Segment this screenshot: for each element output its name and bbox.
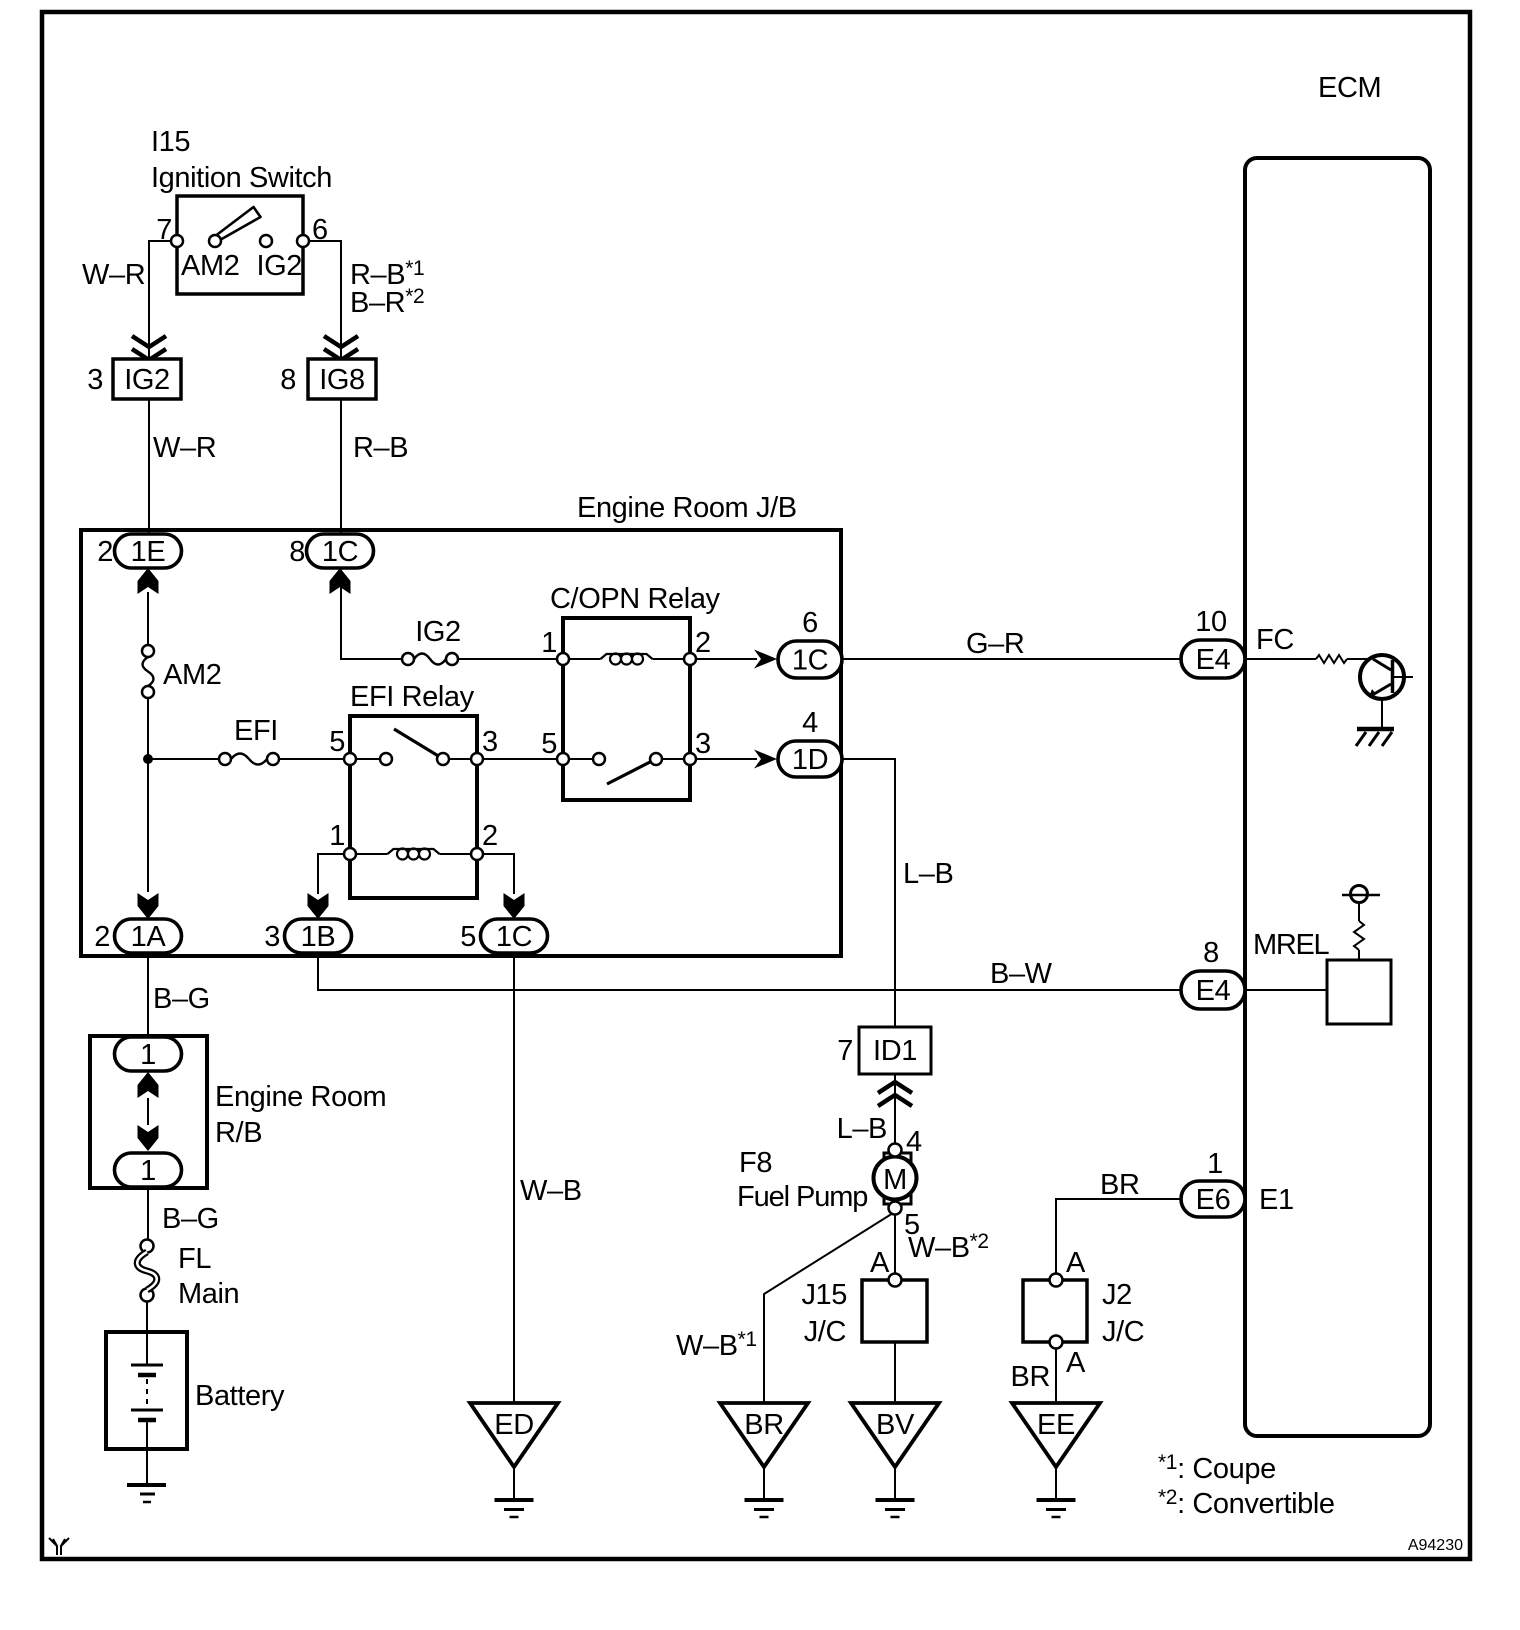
svg-text:BR: BR (744, 1409, 784, 1441)
svg-text:Engine Room: Engine Room (215, 1081, 386, 1113)
svg-text:EFI: EFI (234, 715, 278, 747)
svg-text:C/OPN Relay: C/OPN Relay (550, 583, 721, 615)
svg-text:10: 10 (1195, 606, 1226, 638)
svg-text:EFI Relay: EFI Relay (350, 681, 475, 713)
svg-text:*2: Convertible: *2: Convertible (1158, 1486, 1335, 1520)
svg-text:1C: 1C (322, 536, 358, 568)
svg-text:AM2: AM2 (163, 659, 221, 691)
svg-text:J15: J15 (801, 1279, 847, 1311)
svg-text:MREL: MREL (1253, 929, 1330, 961)
svg-text:1: 1 (541, 627, 557, 659)
svg-text:1: 1 (329, 820, 345, 852)
svg-text:2: 2 (695, 627, 711, 659)
svg-text:A: A (870, 1247, 890, 1279)
svg-text:7: 7 (156, 214, 172, 246)
svg-text:B–G: B–G (153, 983, 210, 1015)
svg-text:Battery: Battery (195, 1380, 285, 1412)
svg-text:2: 2 (97, 536, 113, 568)
svg-text:1C: 1C (792, 645, 828, 677)
svg-text:E6: E6 (1196, 1184, 1231, 1216)
svg-text:8: 8 (1203, 937, 1219, 969)
svg-text:4: 4 (802, 707, 818, 739)
svg-text:1B: 1B (301, 921, 336, 953)
svg-text:EE: EE (1037, 1409, 1075, 1441)
svg-text:3: 3 (695, 728, 711, 760)
svg-text:R–B: R–B (353, 432, 408, 464)
svg-text:1A: 1A (131, 921, 167, 953)
svg-text:Engine Room J/B: Engine Room J/B (577, 492, 797, 524)
svg-text:A94230: A94230 (1408, 1537, 1463, 1554)
svg-text:A: A (1066, 1347, 1086, 1379)
svg-text:F8: F8 (739, 1147, 772, 1179)
svg-text:ED: ED (494, 1409, 534, 1441)
svg-text:FC: FC (1256, 624, 1294, 656)
svg-text:J/C: J/C (804, 1316, 846, 1348)
svg-text:IG2: IG2 (256, 250, 302, 282)
svg-text:BV: BV (876, 1409, 915, 1441)
svg-text:8: 8 (280, 364, 296, 396)
svg-text:L–B: L–B (903, 858, 953, 890)
svg-text:6: 6 (802, 607, 818, 639)
svg-text:2: 2 (482, 820, 498, 852)
svg-text:1E: 1E (131, 536, 166, 568)
svg-text:I15: I15 (151, 126, 190, 158)
svg-text:3: 3 (482, 726, 498, 758)
svg-text:5: 5 (460, 921, 476, 953)
svg-text:5: 5 (329, 726, 345, 758)
svg-text:1: 1 (140, 1155, 156, 1187)
svg-text:ID1: ID1 (873, 1035, 917, 1067)
svg-text:Fuel Pump: Fuel Pump (737, 1181, 867, 1213)
svg-text:5: 5 (541, 728, 557, 760)
svg-text:ECM: ECM (1318, 72, 1381, 104)
svg-text:B–W: B–W (990, 958, 1053, 990)
svg-text:1: 1 (1207, 1148, 1223, 1180)
svg-text:IG2: IG2 (415, 616, 461, 648)
svg-text:L–B: L–B (837, 1113, 887, 1145)
svg-text:1D: 1D (792, 744, 828, 776)
svg-text:W–B: W–B (520, 1175, 582, 1207)
svg-text:B–G: B–G (162, 1203, 219, 1235)
svg-text:IG2: IG2 (124, 364, 170, 396)
svg-text:A: A (1066, 1247, 1086, 1279)
svg-text:J2: J2 (1102, 1279, 1132, 1311)
svg-text:3: 3 (87, 364, 103, 396)
svg-text:FL: FL (178, 1243, 211, 1275)
svg-text:BR: BR (1100, 1169, 1140, 1201)
svg-text:M: M (883, 1164, 907, 1196)
svg-text:3: 3 (264, 921, 280, 953)
svg-text:E4: E4 (1196, 644, 1231, 676)
svg-text:Main: Main (178, 1278, 239, 1310)
svg-text:R/B: R/B (215, 1117, 262, 1149)
svg-text:G–R: G–R (966, 628, 1024, 660)
svg-text:7: 7 (837, 1035, 853, 1067)
svg-text:6: 6 (312, 214, 328, 246)
svg-text:BR: BR (1011, 1361, 1051, 1393)
svg-text:1: 1 (140, 1039, 156, 1071)
svg-text:1C: 1C (496, 921, 532, 953)
svg-text:8: 8 (289, 536, 305, 568)
svg-text:J/C: J/C (1102, 1316, 1144, 1348)
svg-text:2: 2 (94, 921, 110, 953)
svg-text:IG8: IG8 (319, 364, 365, 396)
svg-text:W–R: W–R (82, 259, 145, 291)
svg-text:AM2: AM2 (181, 250, 239, 282)
svg-text:E1: E1 (1259, 1184, 1294, 1216)
svg-text:Ignition Switch: Ignition Switch (151, 162, 332, 194)
svg-text:W–R: W–R (153, 432, 216, 464)
svg-text:E4: E4 (1196, 975, 1231, 1007)
